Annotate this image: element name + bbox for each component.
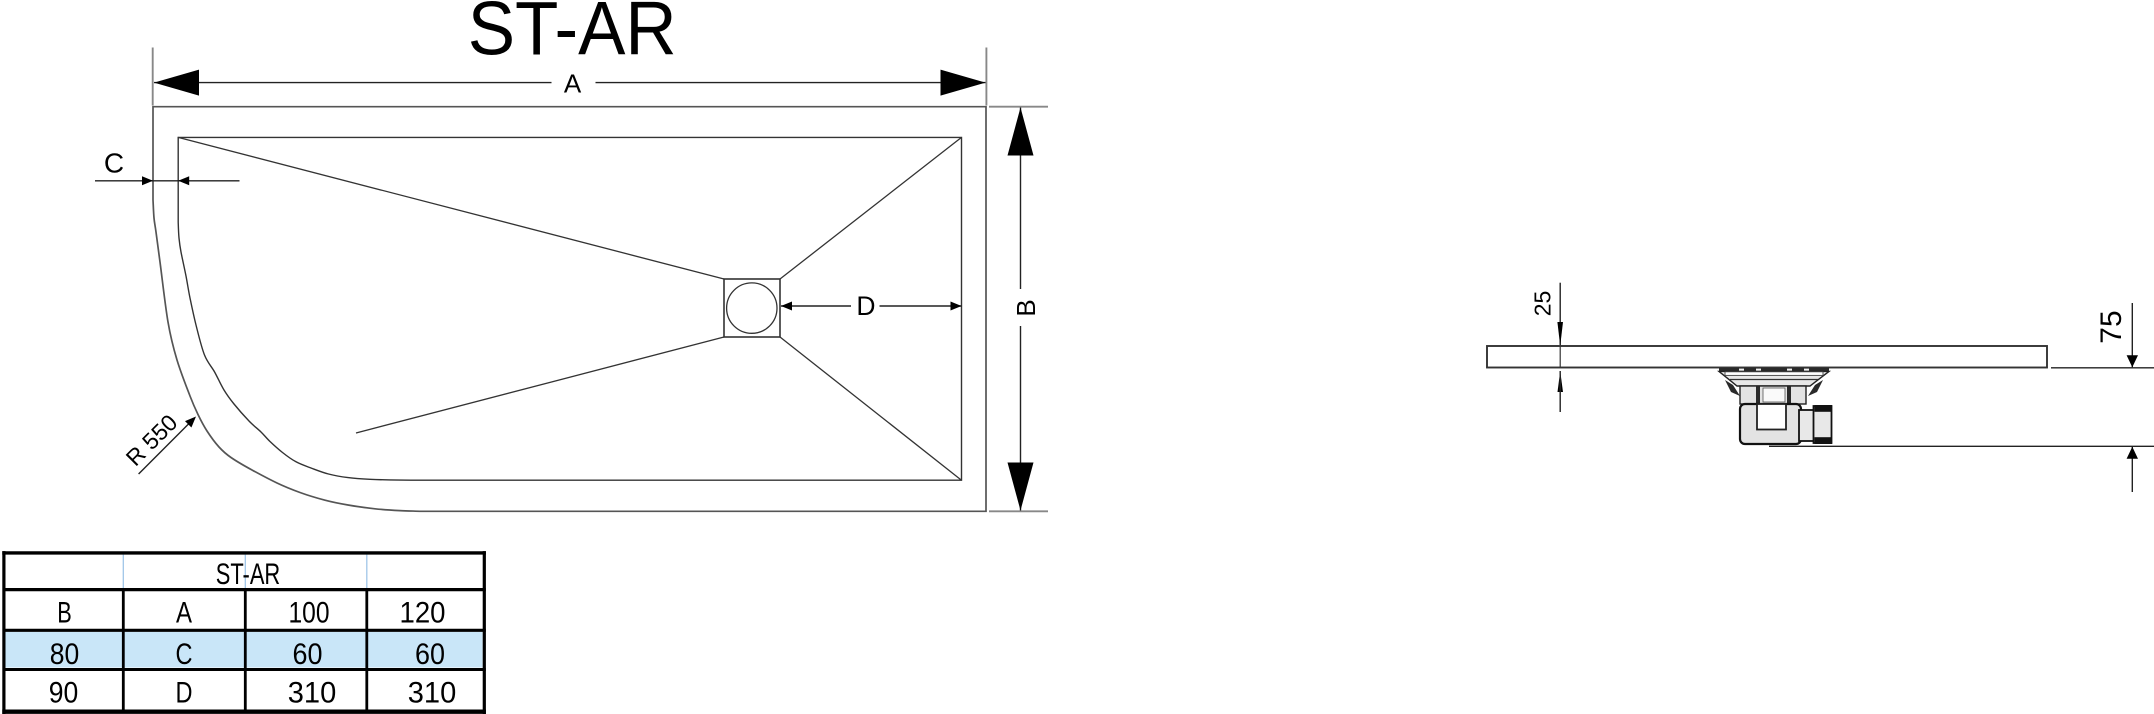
svg-text:80: 80 <box>50 638 80 671</box>
svg-text:C: C <box>104 148 124 179</box>
drain trap flange rim <box>1719 368 1829 371</box>
svg-text:60: 60 <box>293 638 323 671</box>
drain trap outlet pipe <box>1799 410 1814 441</box>
drain trap mid tier <box>1740 386 1806 404</box>
svg-text:B: B <box>1011 299 1041 316</box>
dimension B arrow bottom <box>1008 463 1034 511</box>
dimension 25 arrow down <box>1557 322 1563 346</box>
dimension A arrow right <box>941 70 986 96</box>
dimension A extension line left <box>152 48 154 106</box>
slope fold line to rounded corner <box>356 337 724 433</box>
dimension B extension line top <box>989 106 1048 108</box>
table internal horizontal line 2 <box>3 629 486 632</box>
dimension A extension line right <box>985 48 987 106</box>
dimension B arrow top <box>1008 108 1034 156</box>
table internal horizontal line 3 <box>3 668 486 671</box>
drain trap flange inner band <box>1725 372 1823 376</box>
dimension 75 arrow up <box>2127 447 2138 459</box>
drain square <box>724 279 780 337</box>
svg-text:90: 90 <box>49 676 79 709</box>
drain trap mid tier white panel <box>1763 388 1785 402</box>
dimension C arrow right-pointing <box>142 176 153 185</box>
drain trap right tab <box>1808 380 1823 396</box>
svg-text:60: 60 <box>415 638 445 671</box>
dimension 75 line upper <box>2131 303 2133 367</box>
slope fold line to top-left corner <box>178 137 724 279</box>
drain circle <box>727 283 777 333</box>
dimension 25 line upper <box>1559 283 1561 345</box>
svg-text:100: 100 <box>289 596 330 629</box>
svg-text:ST-AR: ST-AR <box>216 558 281 591</box>
drain trap mid tier detail right <box>1787 387 1791 404</box>
drain trap socket bottom band <box>1815 437 1833 444</box>
table internal vertical line 1 <box>122 588 125 712</box>
plan view inner outline <box>178 137 961 480</box>
table border left <box>2 551 5 714</box>
dimension B line <box>1020 108 1022 290</box>
plan view outer outline <box>153 107 986 512</box>
table internal vertical line 2 <box>244 588 247 712</box>
svg-text:ST-AR: ST-AR <box>468 0 677 71</box>
dimension A arrow left <box>154 70 199 96</box>
drain trap flange body <box>1719 371 1829 386</box>
dimension B extension line bottom <box>989 510 1048 512</box>
drain trap socket top band <box>1815 405 1833 412</box>
dimension A line <box>154 82 552 84</box>
svg-text:120: 120 <box>400 596 446 629</box>
drain trap mid tier detail left <box>1756 387 1760 404</box>
table header gridline 3 <box>366 555 368 588</box>
dimension C arrow left-pointing <box>178 176 189 185</box>
drain trap flange lower line <box>1730 379 1818 381</box>
svg-text:310: 310 <box>408 676 457 709</box>
svg-text:A: A <box>176 596 192 629</box>
drain trap cup inner <box>1757 404 1786 430</box>
dimension D arrow left-pointing <box>781 302 792 311</box>
svg-text:B: B <box>57 596 72 629</box>
table border top <box>2 551 486 554</box>
dimension D line <box>781 305 851 307</box>
dimension 75 line lower <box>2131 447 2133 492</box>
table highlighted row background <box>6 632 483 668</box>
dimension 75 arrow down <box>2127 355 2138 367</box>
dimension 25 line through slab <box>1559 346 1561 368</box>
dimension C line <box>95 180 240 182</box>
section slab <box>1487 346 2047 368</box>
svg-text:D: D <box>176 676 193 709</box>
svg-text:310: 310 <box>288 676 337 709</box>
drain trap cup <box>1740 404 1801 444</box>
radius leader arrowhead <box>185 417 196 428</box>
table header gridline 1 <box>122 555 124 588</box>
table internal vertical line 3 <box>365 588 368 712</box>
table internal horizontal line 1 <box>3 588 486 591</box>
dimension 25 arrow up <box>1558 371 1564 392</box>
svg-text:75: 75 <box>2095 310 2128 343</box>
radius leader line R550 <box>139 421 192 475</box>
table border right <box>483 551 486 714</box>
table border bottom <box>2 710 486 714</box>
dimension 25 line lower <box>1559 371 1561 412</box>
svg-text:C: C <box>176 638 193 671</box>
dimension D arrow right-pointing <box>951 302 962 311</box>
svg-text:25: 25 <box>1529 291 1555 317</box>
slope fold line to bottom-right corner <box>780 337 962 480</box>
svg-text:D: D <box>856 291 875 321</box>
dimension 75 extension line bottom <box>1769 445 2154 447</box>
drain trap left tab <box>1725 380 1740 396</box>
svg-text:A: A <box>564 69 582 99</box>
slope fold line to top-right corner <box>780 137 962 279</box>
dimension 75 extension line top <box>2051 367 2154 369</box>
table header gridline 2 <box>244 555 246 588</box>
drain trap outlet socket <box>1814 406 1832 443</box>
